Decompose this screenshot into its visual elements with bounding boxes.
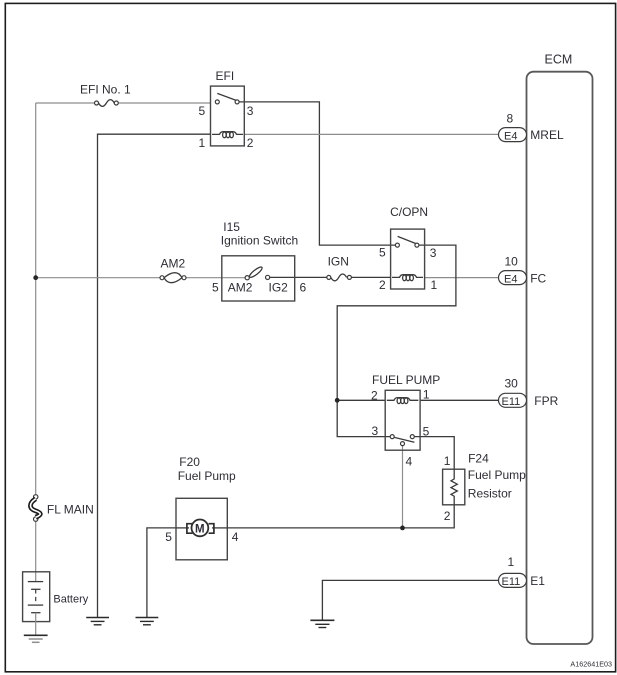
svg-text:FPR: FPR — [534, 394, 558, 408]
svg-text:E4: E4 — [504, 273, 517, 285]
battery plate long 2 — [28, 604, 43, 606]
svg-text:4: 4 — [232, 530, 239, 544]
wire: EFI pin1 to ground — [98, 134, 211, 617]
svg-text:1: 1 — [508, 555, 515, 569]
svg-text:F20: F20 — [179, 455, 200, 469]
svg-text:5: 5 — [199, 104, 206, 118]
battery plate long 1 — [28, 581, 43, 583]
svg-text:A162641E03: A162641E03 — [570, 660, 612, 669]
ground: EFI relay coil — [86, 618, 109, 625]
wire: C/OPN pin3 down to FUEL PUMP relay — [337, 245, 456, 437]
svg-text:10: 10 — [505, 255, 519, 269]
EFI switch contacts — [215, 100, 219, 104]
connector oval E4 pin 8 MREL — [499, 112, 564, 143]
wire: bus FL MAIN to battery — [35, 521, 37, 582]
battery bottom wire — [35, 613, 37, 636]
svg-text:2: 2 — [379, 278, 386, 292]
svg-text:2: 2 — [247, 136, 254, 150]
resistor F24 Fuel Pump Resistor — [443, 452, 527, 524]
svg-text:3: 3 — [372, 424, 379, 438]
F20 motor brushes — [187, 524, 193, 534]
svg-text:5: 5 — [212, 281, 219, 295]
wire: branch to FUEL PUMP coil pin2 — [337, 399, 385, 401]
svg-text:1: 1 — [199, 136, 206, 150]
svg-text:MREL: MREL — [530, 128, 564, 142]
C/OPN switch contacts — [395, 243, 399, 247]
wire: FUEL PUMP pin5 to F24 pin1 — [415, 437, 455, 470]
wire: E1 row to ground — [322, 580, 498, 620]
svg-text:30: 30 — [505, 377, 519, 391]
junction: coil branch — [335, 398, 340, 403]
svg-text:M: M — [195, 523, 205, 535]
fuse EFI No. 1 — [80, 83, 131, 107]
connector oval E11 pin 30 FPR — [499, 377, 559, 409]
svg-text:1: 1 — [431, 278, 438, 292]
svg-text:3: 3 — [247, 104, 254, 118]
svg-text:5: 5 — [379, 246, 386, 260]
C/OPN coil — [392, 275, 423, 281]
svg-text:EFI No. 1: EFI No. 1 — [80, 83, 131, 97]
svg-text:2: 2 — [444, 509, 451, 523]
battery plate short 1 — [31, 588, 40, 590]
svg-text:E4: E4 — [504, 130, 517, 142]
svg-text:1: 1 — [423, 387, 430, 401]
wire: IGN fuse to C/OPN pin2 — [351, 276, 390, 278]
junction: bus to AM2 row — [33, 275, 38, 280]
C/OPN switch arm — [398, 236, 416, 243]
wire: left battery bus vertical — [35, 103, 37, 495]
svg-text:Battery: Battery — [53, 594, 88, 606]
svg-text:E11: E11 — [502, 396, 521, 408]
svg-text:Fuel Pump: Fuel Pump — [468, 468, 526, 482]
I15 contacts — [245, 276, 249, 280]
svg-text:Ignition Switch: Ignition Switch — [221, 233, 298, 247]
wire: EFI No.1 row — [36, 102, 95, 104]
svg-text:AM2: AM2 — [161, 257, 186, 271]
EFI coil — [212, 132, 243, 138]
wire: F24 pin2 to pump row — [227, 505, 454, 528]
connector oval E4 pin 10 FC — [499, 255, 547, 286]
svg-text:ECM: ECM — [545, 53, 573, 67]
svg-text:Fuel Pump: Fuel Pump — [178, 469, 236, 483]
wire: AM2 row from bus to fuse — [36, 277, 160, 279]
junction: pin4 meets pump row — [400, 526, 405, 531]
svg-text:4: 4 — [406, 455, 413, 469]
relay EFI — [199, 69, 254, 150]
battery plate short 2 — [31, 612, 40, 614]
wire: C/OPN pin1 to FC — [425, 277, 499, 279]
wire: FUEL PUMP pin4 to pump row — [402, 446, 404, 528]
wire: F20 pin5 to ground — [147, 528, 176, 618]
svg-text:8: 8 — [507, 112, 514, 126]
fuel pump F20 — [165, 455, 239, 560]
svg-text:FL MAIN: FL MAIN — [47, 503, 94, 517]
svg-text:2: 2 — [371, 389, 378, 403]
svg-text:C/OPN: C/OPN — [390, 205, 428, 219]
svg-text:I15: I15 — [223, 220, 240, 234]
svg-text:1: 1 — [444, 454, 451, 468]
svg-text:IGN: IGN — [328, 255, 349, 269]
wire: EFI pin3 to C/OPN pin5 — [239, 102, 395, 245]
wire: EFI pin2 to MREL — [244, 133, 498, 135]
ground: battery — [24, 635, 48, 642]
F20 motor circle — [192, 520, 209, 537]
F20 motor lead wires — [176, 527, 189, 529]
svg-text:FUEL PUMP: FUEL PUMP — [372, 373, 440, 387]
connector oval E11 pin 1 E1 — [499, 555, 546, 588]
battery — [23, 572, 89, 636]
svg-text:EFI: EFI — [216, 69, 235, 83]
fuse AM2 — [160, 257, 186, 283]
ECM U1 — [527, 53, 593, 645]
svg-text:E11: E11 — [502, 576, 521, 588]
svg-text:3: 3 — [430, 246, 437, 260]
svg-text:AM2: AM2 — [228, 281, 253, 295]
svg-text:5: 5 — [423, 425, 430, 439]
svg-text:Resistor: Resistor — [468, 487, 512, 501]
ground: ECM E1 — [310, 620, 334, 627]
relay C/OPN — [379, 205, 438, 292]
wire: FUEL PUMP pin1 to FPR — [420, 399, 498, 401]
svg-text:FC: FC — [530, 271, 546, 285]
battery dashed link — [35, 589, 37, 605]
svg-text:F24: F24 — [468, 452, 489, 466]
FUEL PUMP switch contacts — [390, 435, 394, 439]
wire: AM2 fuse to ignition switch — [186, 277, 245, 279]
fusible link FL MAIN — [30, 495, 93, 522]
F24 zigzag element — [451, 469, 457, 505]
fuse IGN — [327, 255, 352, 281]
svg-text:IG2: IG2 — [269, 281, 289, 295]
I15 key lever — [248, 266, 263, 279]
ignition switch I15 — [212, 220, 307, 301]
ground: fuel pump — [136, 618, 159, 625]
svg-text:6: 6 — [300, 281, 307, 295]
svg-text:5: 5 — [165, 530, 172, 544]
svg-text:E1: E1 — [530, 574, 545, 588]
wire: IG2 to IGN fuse — [270, 276, 327, 278]
FUEL PUMP switch arm — [394, 437, 414, 442]
relay FUEL PUMP — [371, 373, 440, 469]
FUEL PUMP coil — [387, 398, 419, 404]
EFI switch arm — [217, 93, 236, 100]
